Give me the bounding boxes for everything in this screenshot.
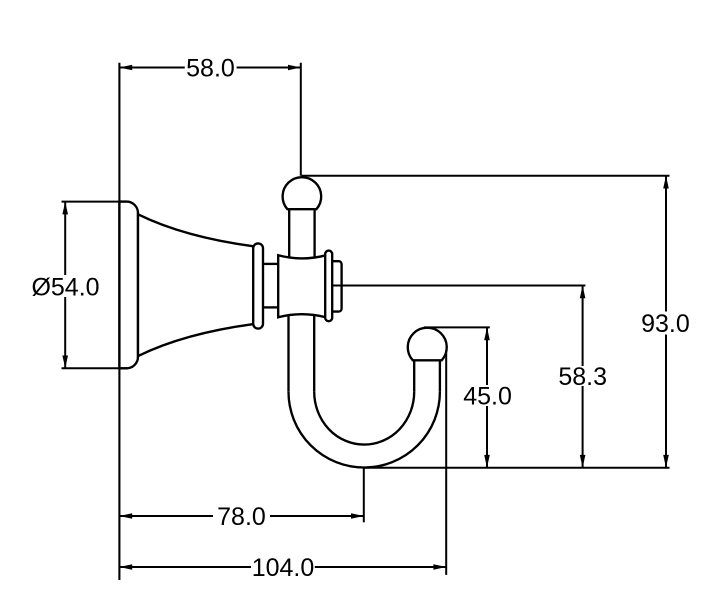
svg-text:58.0: 58.0: [186, 55, 235, 83]
svg-text:58.3: 58.3: [558, 363, 607, 391]
ext 78: [363, 468, 365, 522]
45 arrows: [484, 327, 490, 340]
dim 58.3 line: [582, 286, 584, 367]
left collar ring: [253, 243, 263, 328]
svg-text:104.0: 104.0: [252, 554, 315, 582]
54 arrows: [62, 202, 68, 215]
58.3 arrows: [580, 286, 586, 299]
arrowheads: [62, 65, 668, 570]
ref line 58.3: [332, 285, 585, 287]
dim 78 line: [119, 515, 213, 517]
svg-text:45.0: 45.0: [463, 382, 512, 410]
wall plate (side view, rounded right corners): [119, 202, 138, 369]
58.0 arrows: [119, 65, 132, 71]
svg-text:Ø54.0: Ø54.0: [31, 273, 99, 301]
ext line right of 58.0: [300, 63, 302, 176]
104 arrows: [119, 564, 132, 570]
dim 54 line: [64, 202, 66, 275]
hook U outer curve: [289, 392, 440, 468]
upper ball: [283, 177, 322, 209]
hook end ball: [408, 328, 447, 361]
neck between collar and hub: [263, 263, 278, 265]
end cap (right): [330, 261, 342, 311]
78 arrows: [119, 513, 132, 519]
svg-text:93.0: 93.0: [641, 310, 690, 338]
dim 45 line: [486, 327, 488, 385]
dimension texts: [31, 55, 689, 583]
wall line (extension through plate): [118, 63, 120, 580]
dim 93 line: [665, 176, 667, 312]
93 arrows: [663, 176, 669, 189]
upper post: [288, 209, 290, 260]
ext lines dia 54: [62, 201, 129, 203]
ref line 45: [424, 326, 490, 328]
dim 58.0 line: [119, 67, 184, 69]
hub block: [278, 255, 326, 317]
svg-text:78.0: 78.0: [217, 503, 266, 531]
lower hook left arm: [287, 312, 289, 392]
hook upturn arm: [413, 360, 415, 392]
ref line 93 top: [302, 175, 670, 177]
trumpet bell body: [138, 214, 254, 356]
dim 104 line: [119, 566, 251, 568]
right collar ring: [325, 251, 332, 322]
hook U inner curve: [314, 392, 414, 445]
bottom ref line: [364, 467, 669, 469]
ext 104: [445, 350, 447, 575]
